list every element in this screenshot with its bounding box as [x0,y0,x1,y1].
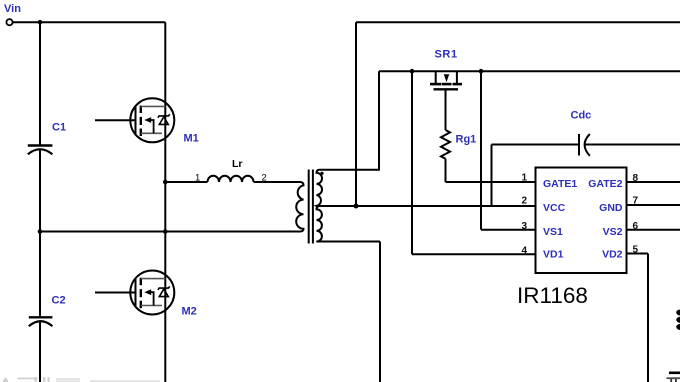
svg-text:8: 8 [633,173,639,184]
svg-text:7: 7 [633,196,639,207]
svg-text:6: 6 [633,221,639,232]
svg-text:SR1: SR1 [435,49,458,61]
svg-text:VD1: VD1 [543,249,564,261]
svg-text:2: 2 [521,196,527,207]
svg-text:GATE2: GATE2 [588,178,622,190]
svg-text:VS2: VS2 [603,226,623,238]
svg-text:IR1168: IR1168 [517,283,588,308]
svg-text:2: 2 [262,172,267,183]
svg-text:M2: M2 [182,306,197,318]
svg-text:C2: C2 [52,295,66,307]
svg-text:4: 4 [521,245,527,256]
svg-text:M1: M1 [184,133,199,145]
svg-text:GND: GND [599,202,623,214]
svg-text:Lr: Lr [232,158,243,170]
svg-text:5: 5 [633,245,639,256]
svg-text:C1: C1 [52,122,66,134]
svg-text:3: 3 [521,221,527,232]
svg-text:GATE1: GATE1 [543,178,577,190]
svg-text:Rg1: Rg1 [456,134,477,146]
svg-text:Vin: Vin [4,3,21,15]
svg-text:1: 1 [521,173,527,184]
svg-text:Cdc: Cdc [571,110,592,122]
svg-text:VCC: VCC [543,202,566,214]
svg-text:1: 1 [195,172,200,183]
svg-text:VD2: VD2 [602,249,623,261]
svg-text:VS1: VS1 [543,226,563,238]
